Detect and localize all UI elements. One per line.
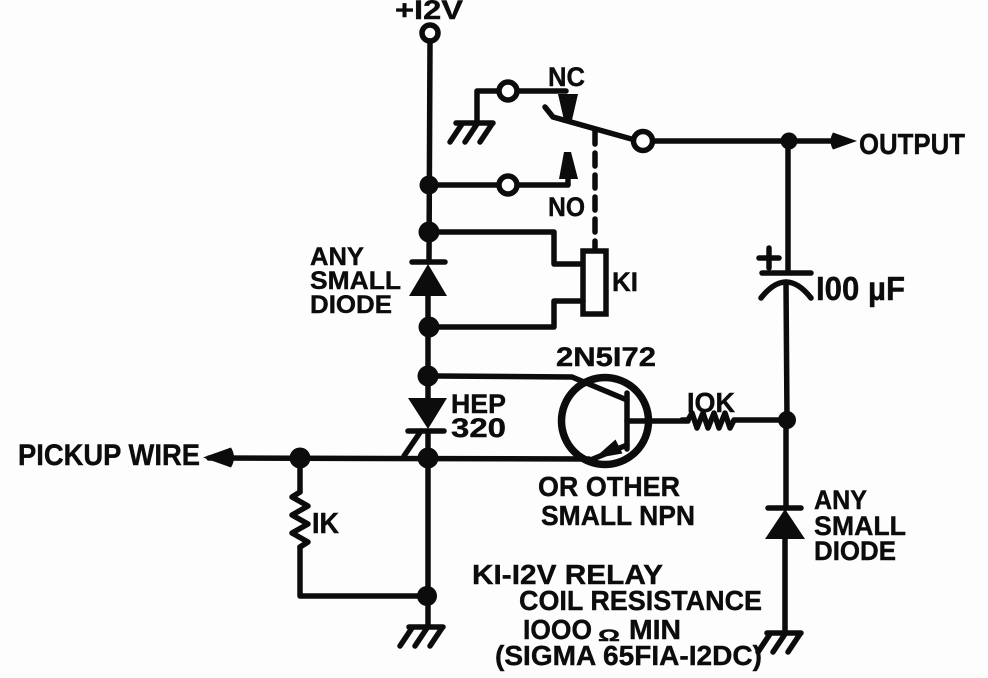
wire: +12V rail down to diode D1 bbox=[429, 41, 430, 262]
svg-text:+I2V: +I2V bbox=[395, 0, 463, 25]
node: output junction bbox=[781, 133, 798, 150]
capacitor C1 top plate bbox=[762, 270, 811, 276]
diode D2 cathode bar bbox=[768, 505, 801, 511]
svg-text:PICKUP WIRE: PICKUP WIRE bbox=[18, 439, 200, 472]
diode D2 body bbox=[765, 509, 805, 539]
OUTPUT arrow bbox=[797, 138, 834, 144]
NO contact arrowhead bbox=[559, 152, 578, 179]
svg-text:2N5I72: 2N5I72 bbox=[556, 342, 656, 372]
wire: node down to 1K bbox=[297, 466, 303, 492]
node: SCR anode / collector branch bbox=[418, 366, 439, 387]
wire: pole to output node bbox=[653, 138, 781, 144]
svg-text:(SIGMA 65FIA-I2DC): (SIGMA 65FIA-I2DC) bbox=[495, 640, 762, 671]
wire: output node down to capacitor bbox=[785, 149, 791, 271]
diode D1 body bbox=[409, 264, 447, 296]
svg-text:DIODE: DIODE bbox=[310, 291, 392, 319]
label ANY SMALL DIODE (D2) bbox=[814, 485, 906, 566]
SCR HEP 320 cathode bar bbox=[408, 428, 444, 434]
wire: NC contact to ground bbox=[477, 91, 499, 122]
svg-text:OR OTHER: OR OTHER bbox=[538, 471, 680, 502]
wire: 1K to ground rail bbox=[300, 547, 418, 596]
svg-text:IK: IK bbox=[312, 508, 339, 540]
wire: SCR cathode to ground rail bbox=[425, 433, 431, 627]
wire: diode D1 to SCR anode bbox=[425, 296, 431, 398]
label ANY SMALL DIODE (D1) bbox=[310, 243, 401, 319]
transistor Q1 emitter bbox=[588, 440, 627, 462]
wire: diode D2 to ground bbox=[782, 539, 788, 633]
wire: Q1 base lead bbox=[627, 418, 688, 424]
NO contact terminal bbox=[499, 176, 517, 194]
node: diode D1 / relay top bbox=[419, 222, 440, 243]
label OR OTHER SMALL NPN bbox=[538, 471, 695, 531]
resistor R2 10K bbox=[682, 413, 781, 428]
svg-text:IOK: IOK bbox=[687, 387, 735, 418]
svg-text:OUTPUT: OUTPUT bbox=[859, 129, 965, 161]
dashed link: pole to relay K1 bbox=[592, 131, 598, 251]
resistor R1 1K bbox=[292, 492, 308, 547]
wire: pickup line bbox=[209, 458, 589, 459]
relay coil K1 bbox=[583, 251, 606, 314]
wire: node to relay K1 top lead bbox=[438, 232, 583, 264]
+12V terminal bbox=[422, 25, 438, 41]
wire: node to diode D2 bbox=[783, 428, 789, 508]
svg-text:I00 µF: I00 µF bbox=[816, 270, 905, 307]
pickup wire arrowhead bbox=[203, 448, 234, 468]
node: NO branch on +12V rail bbox=[420, 176, 439, 195]
SCR HEP 320 body bbox=[408, 398, 447, 429]
svg-text:320: 320 bbox=[451, 413, 506, 443]
node: pickup / 1K junction bbox=[290, 448, 311, 469]
NC contact arrowhead bbox=[558, 94, 578, 120]
wire: capacitor to 10K node bbox=[786, 282, 787, 420]
capacitor C1 polarity + bbox=[759, 248, 779, 268]
capacitor C1 curved plate bbox=[761, 282, 811, 298]
switch arm (relay pole) bbox=[545, 107, 635, 140]
svg-text:NO: NO bbox=[548, 192, 585, 222]
svg-text:NC: NC bbox=[548, 62, 585, 92]
wire: node to Q1 collector bbox=[437, 376, 627, 400]
ground (main) bbox=[400, 627, 443, 646]
node: ground junction bbox=[417, 586, 437, 606]
OUTPUT arrowhead bbox=[831, 133, 858, 150]
node: diode D1 / relay bottom bbox=[419, 317, 440, 338]
pole terminal bbox=[634, 132, 653, 151]
wire: rail to NO contact bbox=[438, 182, 499, 188]
SCR HEP 320 gate lead bbox=[404, 431, 421, 456]
wire: NO contact stub bbox=[517, 176, 568, 185]
svg-text:COIL RESISTANCE: COIL RESISTANCE bbox=[519, 585, 762, 616]
label HEP 320 bbox=[451, 389, 506, 443]
NC contact terminal bbox=[499, 82, 517, 100]
svg-text:KI: KI bbox=[612, 267, 638, 297]
svg-text:SMALL NPN: SMALL NPN bbox=[541, 500, 695, 531]
svg-text:DIODE: DIODE bbox=[814, 536, 896, 566]
node: SCR cathode junction bbox=[418, 448, 439, 469]
ground (NC contact) bbox=[450, 123, 493, 142]
wire: node to relay K1 bottom lead bbox=[438, 301, 583, 327]
transistor Q1 2N5172 body bbox=[562, 378, 649, 465]
diode D1 cathode bar bbox=[412, 259, 445, 265]
ground (output filter) bbox=[758, 633, 801, 652]
wire: NC contact stub bbox=[517, 88, 566, 94]
node: output RC junction bbox=[778, 411, 796, 429]
transistor Q1 base bar bbox=[624, 393, 630, 449]
note: K1 relay specs line 3 bbox=[523, 614, 681, 645]
